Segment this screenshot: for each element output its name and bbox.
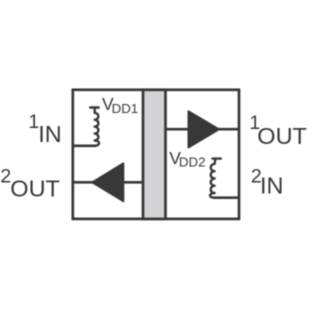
svg-text:DD1: DD1 — [112, 101, 139, 116]
wire channel 2 buffer to barrier — [122, 181, 144, 184]
wire 2OUT pin to buffer — [72, 181, 93, 184]
inductor coil VDD1 — [90, 108, 99, 146]
inductor coil VDD2 — [210, 159, 221, 198]
wire channel 1 barrier to buffer — [166, 128, 190, 131]
svg-text:DD2: DD2 — [179, 155, 206, 170]
wire 1IN pin to VDD1 coil — [72, 145, 96, 148]
svg-text:OUT: OUT — [10, 175, 60, 201]
svg-text:OUT: OUT — [257, 123, 307, 149]
buffer U2 channel 1 — [189, 111, 220, 147]
svg-text:IN: IN — [38, 121, 62, 147]
IC body box U1 — [73, 90, 239, 219]
buffer U3 channel 2 — [92, 163, 123, 201]
isolation barrier — [143, 90, 166, 219]
wire channel 1 buffer to 1OUT pin — [217, 128, 240, 131]
wire VDD2 coil to 2IN pin — [214, 196, 240, 199]
svg-text:IN: IN — [260, 173, 284, 199]
